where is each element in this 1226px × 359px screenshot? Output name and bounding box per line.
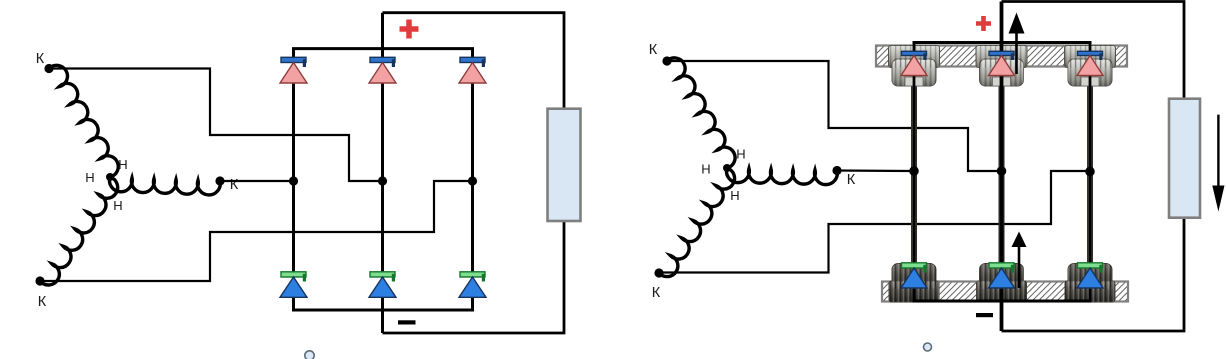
wire negative return from load (right, bottom) [1002,218,1185,331]
wire phase B route (right): K to bridge leg 1 [837,169,914,172]
wire phase C route (right): K to bridge leg 3 [659,171,1090,273]
svg-text:H: H [113,198,122,213]
diode VD3 (left bridge, top row, leg 3) [460,57,485,62]
node junction dot leg2/phase A (right) [997,166,1007,176]
svg-text:К: К [847,172,856,188]
diode VD8 symbol (right bridge, top row) [989,51,1014,55]
diode VD7 symbol (right bridge, top row) [902,51,927,55]
node K terminal dot (left top phase) [44,64,53,73]
svg-text:К: К [38,294,47,310]
press-fit diode body VD9 (photo block, right top, leg 3) [1065,46,1116,68]
node K terminal dot (left bottom phase) [35,276,44,285]
label - negative terminal (right) [976,313,993,317]
wire negative bus (right bridge bottom) [913,300,1092,303]
winding L2 phase coil (right stator, top-left) [667,58,735,168]
wire phase C route (left): K to bridge leg 3 [40,181,473,281]
svg-text:К: К [649,42,658,58]
wire positive output to load (right, top) [1002,2,1185,99]
winding L2 phase coil (right stator, middle horizontal) [727,168,838,185]
press-fit diode body VD11 (photo block, right bottom, leg 2) [980,264,1024,290]
wire bridge leg 3 (right) [1089,43,1092,302]
press-fit diode body VD10 (photo block, right bottom, leg 1) [892,264,936,290]
winding L1 phase coil (left stator, middle horizontal) [109,177,220,195]
wire negative return from load (left, bottom) [383,221,565,333]
wire bridge leg 2 (right) [1000,2,1004,332]
load resistor R1 (left) [548,109,581,221]
diode VD4 (left bridge, bottom row, leg 1) [281,272,306,277]
press-fit diode body VD8 (photo block, right top, leg 2) [976,46,1027,68]
diode VD11 symbol (right bridge, bottom row) [989,263,1014,268]
node junction dot leg2/phase A (left) [378,176,387,185]
marker circle (left bottom) [305,351,314,359]
label - negative terminal (left) [398,320,416,324]
heatsink busbar negative (hatched, right bottom) [882,282,1128,302]
press-fit diode body VD12 (photo block, right bottom, leg 3) [1068,264,1112,290]
diode VD2 (left bridge, top row, leg 2) [370,57,395,62]
node K terminal dot (right bottom phase) [654,268,663,277]
svg-text:H: H [730,188,739,203]
svg-text:К: К [36,51,45,67]
node junction dot leg3/phase C (right) [1085,167,1095,177]
node K terminal dot (right top phase) [662,56,671,65]
wire positive bus (right bridge top) [913,41,1092,44]
wire phase A route (left): K to bridge leg 2 [49,69,383,182]
marker circle (right bottom) [924,343,932,351]
node H star point dot (left) [106,173,114,181]
threaded stud of press-fit diode pair, leg 2 (right) [999,55,1005,300]
svg-text:H: H [701,162,710,177]
arrow load current down (right of load R2) [1212,115,1224,212]
wire phase B route (left): K to bridge leg 1 [220,180,294,182]
wire bridge leg 1 (left) [292,49,295,310]
svg-text:H: H [118,157,127,172]
arrow current direction up (right top, at positive bus) [1009,13,1025,75]
node junction dot leg1/phase B (left) [289,176,298,185]
node K terminal dot (left middle phase) [215,176,224,185]
node junction dot leg1/phase B (right) [909,166,919,176]
diode VD1 (left bridge, top row, leg 1) [281,57,306,62]
heatsink busbar positive (hatched, right top) [876,46,1127,67]
press-fit diode body VD7 (photo block, right top, leg 1) [889,46,940,68]
wire phase A route (right): K to bridge leg 2 [667,61,1002,171]
wire positive output to load (left, top) [383,13,565,109]
svg-text:H: H [85,170,94,185]
wire bridge leg 1 (right) [913,43,916,302]
arrow current direction up (right middle, at negative bus) [1012,232,1027,289]
diode VD10 symbol (right bridge, bottom row) [902,263,927,268]
label + positive terminal (left) [400,20,419,39]
wire bridge leg 3 (left) [471,49,474,310]
winding L2 phase coil (right stator, bottom-left) [659,168,735,277]
winding L1 phase coil (left stator, bottom-left) [40,177,118,285]
wire negative bus (left bridge bottom) [292,309,474,312]
threaded stud of press-fit diode pair, leg 1 (right) [911,55,917,300]
svg-text:К: К [230,177,239,193]
diode VD5 (left bridge, bottom row, leg 2) [370,272,395,277]
threaded stud of press-fit diode pair, leg 3 (right) [1087,55,1093,300]
diode VD6 (left bridge, bottom row, leg 3) [460,272,485,277]
wire bridge leg 2 (left) [381,13,384,333]
node H star point dot (right) [723,164,731,172]
svg-text:H: H [736,147,745,162]
node junction dot leg3/phase C (left) [468,176,477,185]
svg-text:К: К [652,285,661,301]
wire positive bus (left bridge top) [292,47,474,50]
winding L1 phase coil (left stator, top-left) [49,65,118,177]
node K terminal dot (right middle phase) [832,166,841,175]
diode VD9 symbol (right bridge, top row) [1078,51,1103,55]
label + positive terminal (right) [976,16,991,31]
load resistor R2 (right) [1169,99,1200,218]
diode VD12 symbol (right bridge, bottom row) [1078,263,1103,268]
